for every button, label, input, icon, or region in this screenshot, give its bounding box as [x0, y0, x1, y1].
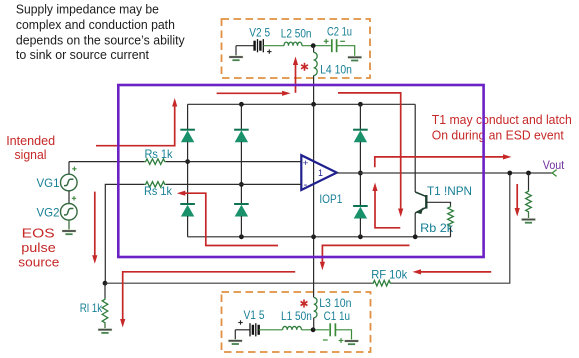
source VG2 [61, 204, 78, 221]
red path to Rl arrow [123, 272, 296, 324]
wire col1 middle [187, 142, 189, 204]
terminal Vout [552, 170, 556, 177]
node bottom rail at col4 [358, 234, 363, 239]
wire ground to V1 [235, 329, 250, 331]
node bottom rail at col2 [239, 234, 244, 239]
wire VG2 to ground [68, 220, 70, 231]
wire Rl to ground [104, 324, 106, 330]
capacitor C1 [329, 323, 331, 336]
red asterisk (bottom) [303, 300, 305, 308]
diode D3 (col2 upper) [234, 129, 249, 131]
diode D2 (col1 lower) [180, 203, 195, 205]
wire col1 lower [187, 216, 189, 237]
svg-text:L4 10n: L4 10n [320, 63, 352, 77]
bottom supply network box (dashed) [222, 292, 371, 352]
resistor Rl 1k [102, 298, 108, 324]
svg-text:Rs 1k: Rs 1k [144, 184, 172, 198]
svg-text:EOS: EOS [22, 225, 55, 240]
node top rail at col4 [358, 102, 363, 107]
ground (V2 negative) [235, 46, 237, 57]
wire inverting corner [105, 184, 144, 283]
ground (VG2) [62, 229, 76, 232]
wire V1 to L1 [259, 329, 283, 331]
transistor T1 base bar [425, 195, 427, 209]
node bottom-box junction [311, 327, 316, 332]
wire center power column [313, 104, 315, 237]
node output at load [526, 171, 531, 176]
wire RF to output node [392, 173, 510, 283]
diode D6 (col4 lower) [353, 205, 368, 207]
svg-text:-: - [304, 179, 308, 191]
wire node to L4 [313, 46, 315, 53]
red path down center-right arrow [338, 93, 401, 214]
VG2 plus mark [72, 197, 76, 199]
resistor Rs2 1k [144, 182, 166, 188]
wire C1 to ground [335, 330, 351, 341]
svg-text:Supply impedance may be: Supply impedance may be [16, 1, 159, 16]
wire VG1 stem [68, 162, 70, 175]
wire T1 base to Rb [426, 202, 450, 205]
wire Rb to rail [450, 228, 452, 237]
node top rail at col2 [239, 102, 244, 107]
wire node to RF [105, 282, 372, 284]
wire col2 middle [240, 142, 242, 204]
resistor RF 10k [372, 280, 392, 286]
wire L1 to node [302, 329, 330, 331]
node top-box junction [311, 43, 316, 48]
red path RF arrow [416, 271, 491, 273]
svg-text:T1 may conduct and latch: T1 may conduct and latch [432, 112, 572, 127]
wire col2 lower [240, 216, 242, 237]
inductor L2 50n [284, 42, 302, 46]
VG1 plus mark [72, 168, 76, 170]
wire T1 collector [414, 104, 416, 192]
ground (V1 negative) [234, 330, 236, 341]
bottom supply rail [188, 236, 451, 238]
node output at RF [507, 171, 512, 176]
svg-text:V2 5: V2 5 [249, 25, 270, 39]
diode D5 (col4 upper) [353, 129, 368, 131]
resistor Rb 2k [448, 206, 454, 228]
inductor L3 10n [314, 298, 317, 318]
wire col4 upper [359, 104, 361, 129]
svg-text:VG1: VG1 [37, 176, 60, 190]
wire col1 upper [187, 104, 189, 129]
wire C2 to ground [337, 46, 355, 58]
top supply rail [188, 103, 416, 105]
red path emitter to bottom supply arrow [322, 245, 409, 266]
wire op-amp output to Vout [337, 172, 552, 174]
svg-text:L1 50n: L1 50n [281, 309, 312, 323]
red path EOS down arrow [94, 192, 96, 261]
diode D4 (col2 lower) [234, 203, 249, 205]
red path into top supply (up arrow) [295, 60, 297, 93]
V2 plus mark [267, 51, 271, 53]
capacitor C1 minus mark [323, 339, 328, 341]
wire rail down to L3 [313, 237, 315, 297]
battery V1 [249, 323, 251, 336]
capacitor C1 plus mark [339, 340, 344, 342]
node col2 input- [239, 182, 244, 187]
wire load to ground [528, 213, 530, 220]
node Rl junction [103, 281, 108, 286]
op-amp IOP1 [301, 155, 337, 190]
wire Rs2 to op-amp - [166, 183, 301, 185]
node col1 input+ [185, 159, 190, 164]
ground (C1) [344, 339, 358, 342]
wire ground to V2 [236, 45, 255, 47]
svg-text:to sink or source current: to sink or source current [16, 47, 150, 62]
wire col4 lower [359, 218, 361, 237]
IC boundary box (purple) [118, 85, 483, 257]
red path load arrow [516, 184, 518, 213]
svg-text:pulse: pulse [21, 240, 56, 255]
ground (C2) [348, 56, 362, 59]
svg-text:Rb 2k: Rb 2k [420, 221, 453, 235]
ground (load) [521, 218, 535, 221]
svg-text:Rs 1k: Rs 1k [145, 147, 173, 161]
svg-text:1: 1 [318, 168, 323, 178]
ground (Rl) [98, 328, 112, 331]
V1 plus mark [238, 322, 242, 324]
wire L4 down to rail [313, 76, 315, 105]
svg-text:complex and conduction path: complex and conduction path [16, 17, 175, 32]
resistor Rs1 1k [144, 159, 166, 165]
svg-text:T1 !NPN: T1 !NPN [427, 184, 472, 198]
svg-text:Vout: Vout [543, 158, 565, 172]
svg-text:L2 50n: L2 50n [281, 27, 312, 41]
inductor L4 10n [314, 52, 318, 75]
red asterisk (top) [304, 63, 306, 71]
node emitter rail [413, 234, 418, 239]
wire col4 middle [359, 142, 361, 206]
wire col2 upper [240, 104, 242, 129]
capacitor C2 plus mark [324, 40, 329, 42]
wire V2 to L2 [263, 45, 284, 47]
svg-text:On during an ESD event: On during an ESD event [432, 127, 564, 142]
capacitor C2 minus mark [340, 40, 345, 42]
inductor L1 50n [283, 326, 302, 329]
source VG1 [61, 174, 78, 191]
red path back to Rs arrow [181, 193, 279, 245]
node col4 output [358, 171, 363, 176]
red path up arrow near T1 [375, 186, 400, 228]
wire L3 to node [313, 327, 315, 330]
diode D1 (col1 upper) [180, 129, 195, 131]
svg-text:signal: signal [15, 147, 47, 162]
wire load stem [528, 173, 530, 190]
red path top horizontal arrow [217, 92, 287, 94]
svg-text:Rl 1k: Rl 1k [80, 301, 103, 315]
top supply network box (dashed) [222, 19, 371, 78]
resistor load [526, 190, 532, 213]
wire Rs1 to op-amp + [166, 161, 301, 163]
svg-text:RF 10k: RF 10k [371, 267, 407, 281]
svg-text:+: + [303, 158, 309, 169]
wire VG1 to VG2 [68, 191, 70, 204]
node bottom rail at center [311, 234, 316, 239]
battery V2 [253, 41, 255, 51]
svg-text:VG2: VG2 [37, 206, 60, 220]
svg-text:IOP1: IOP1 [319, 192, 342, 206]
svg-text:L3 10n: L3 10n [319, 296, 351, 310]
capacitor C2 [331, 39, 333, 52]
node top rail at center [311, 102, 316, 107]
wire VG1 to Rs1 [69, 161, 144, 163]
svg-text:source: source [18, 255, 59, 270]
wire L2 to node [302, 45, 331, 47]
svg-text:V1 5: V1 5 [244, 308, 265, 322]
svg-text:C2 1u: C2 1u [327, 25, 352, 39]
red path output to Vout arrow [375, 157, 508, 167]
wire T1 emitter [415, 207, 426, 213]
wire Rl stem [104, 283, 106, 298]
svg-text:C1 1u: C1 1u [324, 309, 350, 323]
red path intended-signal arrow [96, 102, 175, 146]
svg-text:depends on the source’s abilit: depends on the source’s ability [16, 32, 185, 47]
